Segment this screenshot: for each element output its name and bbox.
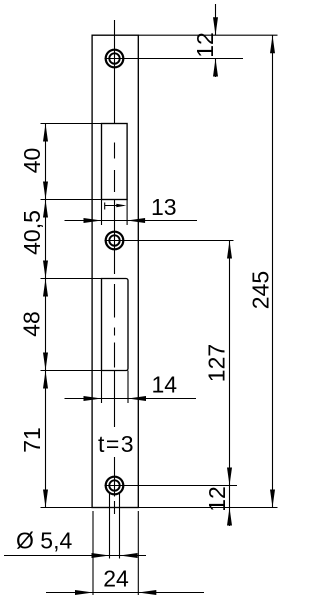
dimension texts xyxy=(16,32,274,591)
hole top (screw hole) xyxy=(106,50,124,68)
arrows at 370.5 (down+up) xyxy=(43,353,48,371)
dim 24 dimension line xyxy=(46,592,204,594)
dim 127 / 12 bottom dimension line xyxy=(229,241,231,527)
cutout 1 (latch opening 13 wide) xyxy=(102,124,128,200)
svg-text:71: 71 xyxy=(19,427,45,453)
dim 14 extension lines under cutout2 xyxy=(101,371,103,404)
extension line cutout1 bottom (dim 40/40,5) xyxy=(41,199,102,201)
svg-text:12: 12 xyxy=(192,32,218,58)
extension plate bottom left (dim 71) xyxy=(41,507,93,509)
svg-text:48: 48 xyxy=(19,311,45,337)
arrows dim 5,4 (outside) xyxy=(92,553,110,558)
adjustment arrow inside cutout1 xyxy=(105,203,124,210)
arrows dim 24 (outside) xyxy=(75,590,93,595)
svg-text:127: 127 xyxy=(204,344,230,382)
crosshair top hole / extension for dim 12 top xyxy=(105,58,244,60)
extension plate bottom right (dims 12/245) xyxy=(138,507,277,509)
crosshair middle hole / extension for dim 127 xyxy=(105,240,234,242)
dim 12 top dimension line xyxy=(215,4,217,77)
arrows at 199.5 (down+up) xyxy=(43,182,48,200)
cutout 2 (deadbolt opening 14 wide) xyxy=(102,279,129,371)
svg-text:14: 14 xyxy=(152,371,178,397)
dim 5,4 dimension line xyxy=(4,555,146,557)
svg-text:t=3: t=3 xyxy=(98,431,135,457)
left dimension line (40, 40,5, 48, 71) xyxy=(45,124,47,508)
dim 13 extension lines under cutout1 xyxy=(101,200,103,226)
arrows dim 245 xyxy=(270,35,275,53)
hole diameter extension lines (tangents bottom hole) xyxy=(110,492,120,559)
arrowheads xyxy=(43,17,275,595)
arrow dim71 bottom (down) xyxy=(43,490,48,508)
arrow dim 12 bottom (up from below) xyxy=(227,508,232,526)
dim 13 dimension line xyxy=(65,220,198,222)
extension line cutout2 top (dim 40,5/48) xyxy=(41,278,102,280)
adjustment arrowhead xyxy=(116,204,126,207)
plate outline xyxy=(92,35,138,507)
extension line cutout2 bottom (dim 48/71) xyxy=(41,370,102,372)
arrows dim 14 (outside) xyxy=(84,396,102,401)
hole middle (screw hole) xyxy=(106,232,124,250)
arrows dim 12 top xyxy=(213,17,218,35)
svg-text:40: 40 xyxy=(19,148,45,174)
dim 24 extension lines xyxy=(93,511,138,595)
svg-text:12: 12 xyxy=(204,486,230,512)
svg-text:245: 245 xyxy=(248,271,274,309)
svg-text:24: 24 xyxy=(103,566,129,592)
svg-text:40,5: 40,5 xyxy=(19,210,45,255)
centerline vertical (dash-dot segments) xyxy=(114,20,116,514)
svg-text:Ø 5,4: Ø 5,4 xyxy=(16,528,72,554)
extension line cutout1 top (dim 40) xyxy=(41,123,102,125)
extension plate top right (dims 12/245) xyxy=(138,34,277,36)
arrows at 278.5 (down+up) xyxy=(43,261,48,279)
dim 14 dimension line xyxy=(65,398,197,400)
hole bottom (screw hole) xyxy=(106,477,124,495)
svg-text:13: 13 xyxy=(151,194,177,220)
dim 245 dimension line xyxy=(272,35,274,507)
crosshair bottom hole / extension for dim 12 bottom xyxy=(105,485,238,487)
arrows dim 13 (outside) xyxy=(84,218,102,223)
arrows dim 127 xyxy=(227,241,232,259)
arrow dim40 top (up) xyxy=(43,124,48,142)
